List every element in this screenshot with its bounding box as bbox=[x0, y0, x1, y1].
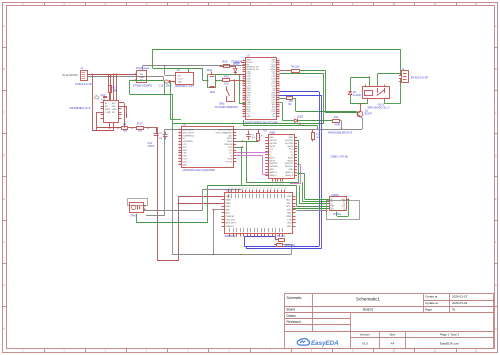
svg-text:33: 33 bbox=[278, 98, 280, 100]
svg-text:31: 31 bbox=[278, 103, 280, 105]
svg-text:D: D bbox=[3, 154, 5, 158]
svg-text:47: 47 bbox=[278, 66, 280, 68]
svg-text:10: 10 bbox=[243, 80, 245, 82]
svg-text:3: 3 bbox=[179, 134, 180, 136]
svg-text:8: 8 bbox=[179, 149, 180, 151]
svg-text:2: 2 bbox=[179, 131, 180, 133]
svg-text:VBAT: VBAT bbox=[225, 199, 231, 202]
svg-text:Version: Version bbox=[360, 332, 370, 336]
svg-text:D: D bbox=[495, 154, 497, 158]
svg-text:LED3: LED3 bbox=[297, 115, 304, 118]
svg-text:39: 39 bbox=[278, 84, 280, 86]
svg-text:SSRXN2: SSRXN2 bbox=[269, 166, 278, 168]
svg-text:VBUS: VBUS bbox=[269, 160, 275, 162]
green bus from U3 bbox=[299, 70, 325, 72]
svg-text:18: 18 bbox=[243, 98, 245, 100]
svg-text:4: 4 bbox=[179, 137, 180, 139]
svg-text:37: 37 bbox=[278, 89, 280, 91]
svg-text:42: 42 bbox=[228, 188, 230, 190]
svg-text:SPK-: SPK- bbox=[287, 209, 292, 211]
connector J2 KF301-5.0-3P bbox=[402, 71, 409, 83]
svg-text:13: 13 bbox=[179, 163, 181, 165]
svg-text:55: 55 bbox=[274, 188, 276, 190]
svg-text:38: 38 bbox=[278, 87, 280, 89]
resistor R18 bbox=[223, 79, 230, 82]
svg-text:RVCLK: RVCLK bbox=[225, 161, 233, 163]
svg-text:20: 20 bbox=[243, 103, 245, 105]
svg-text:34: 34 bbox=[278, 96, 280, 98]
resistor R9 vertical bbox=[312, 133, 315, 140]
svg-text:IN 12-24V DC: IN 12-24V DC bbox=[62, 74, 78, 77]
transistor Q1 BC547 bbox=[357, 111, 363, 117]
svg-text:43: 43 bbox=[278, 75, 280, 77]
svg-text:H: H bbox=[495, 326, 497, 330]
svg-text:VIO: VIO bbox=[229, 150, 233, 152]
svg-text:E: E bbox=[3, 197, 5, 201]
svg-text:VDD: VDD bbox=[228, 147, 233, 149]
svg-text:B: B bbox=[495, 67, 497, 71]
svg-text:GPIO.1/RXT: GPIO.1/RXT bbox=[182, 130, 195, 132]
svg-text:SUSPEND: SUSPEND bbox=[182, 141, 193, 143]
wire 3V3 rail bbox=[188, 68, 190, 72]
green loop to U5 supply bbox=[130, 80, 164, 82]
svg-text:Board: Board bbox=[287, 308, 296, 312]
op-amp U5 CP2102N bbox=[182, 127, 234, 168]
svg-text:15: 15 bbox=[243, 91, 245, 93]
svg-text:26: 26 bbox=[278, 115, 280, 117]
svg-text:APHD1608LSECK/J3: APHD1608LSECK/J3 bbox=[328, 131, 353, 134]
node FB row bbox=[97, 127, 122, 129]
svg-text:SSTXP1: SSTXP1 bbox=[269, 140, 278, 142]
svg-text:SSRXN1: SSRXN1 bbox=[285, 166, 294, 168]
svg-text:1M0: 1M0 bbox=[113, 89, 118, 92]
svg-text:MIC+: MIC+ bbox=[286, 200, 292, 202]
svg-text:GPIO.3/RS485: GPIO.3/RS485 bbox=[218, 130, 233, 132]
svg-text:Update at: Update at bbox=[425, 301, 438, 305]
svg-text:470uF: 470uF bbox=[148, 145, 155, 148]
svg-text:44: 44 bbox=[278, 73, 280, 75]
svg-text:SBU2: SBU2 bbox=[288, 157, 294, 159]
svg-text:C16: C16 bbox=[159, 83, 164, 87]
svg-text:GND: GND bbox=[287, 213, 292, 215]
svg-text:VREGIN: VREGIN bbox=[224, 144, 233, 146]
svg-text:AMS1117-3.3V: AMS1117-3.3V bbox=[175, 84, 194, 88]
svg-text:DTR: DTR bbox=[182, 159, 187, 161]
svg-text:SHELL2: SHELL2 bbox=[269, 175, 278, 177]
svg-text:STATUS: STATUS bbox=[225, 225, 234, 228]
svg-text:USB3.1-AF-90: USB3.1-AF-90 bbox=[331, 155, 349, 159]
svg-text:19: 19 bbox=[243, 101, 245, 103]
svg-text:VBUS: VBUS bbox=[269, 146, 275, 148]
svg-text:Create at: Create at bbox=[425, 295, 438, 299]
svg-text:50: 50 bbox=[256, 188, 258, 190]
svg-text:H: H bbox=[3, 326, 5, 330]
svg-text:40: 40 bbox=[278, 82, 280, 84]
resistor R16 bbox=[274, 244, 277, 246]
svg-text:45: 45 bbox=[238, 188, 240, 190]
svg-text:SSRXP1: SSRXP1 bbox=[285, 163, 294, 165]
svg-text:22: 22 bbox=[243, 108, 245, 110]
svg-text:E: E bbox=[495, 197, 497, 201]
svg-text:USB2: USB2 bbox=[269, 132, 276, 135]
svg-text:VOUT: VOUT bbox=[178, 79, 184, 81]
wire V+ from J1 bbox=[87, 74, 136, 76]
svg-text:17: 17 bbox=[243, 96, 245, 98]
svg-text:45: 45 bbox=[278, 70, 280, 72]
svg-text:Schematic1: Schematic1 bbox=[356, 297, 380, 302]
svg-text:MP1584EN-LF-Z: MP1584EN-LF-Z bbox=[69, 106, 90, 110]
svg-text:BC547: BC547 bbox=[365, 112, 373, 115]
wire caps to R18 bbox=[216, 80, 223, 82]
title block bbox=[285, 294, 494, 349]
svg-text:PWRKEY: PWRKEY bbox=[225, 216, 235, 218]
svg-text:49: 49 bbox=[253, 188, 255, 190]
svg-text:1: 1 bbox=[179, 128, 180, 130]
svg-text:B: B bbox=[3, 67, 5, 71]
svg-text:GND: GND bbox=[228, 159, 233, 161]
svg-text:42: 42 bbox=[278, 77, 280, 79]
svg-text:51: 51 bbox=[260, 188, 262, 190]
capacitor C5 bbox=[246, 134, 251, 136]
svg-text:57: 57 bbox=[281, 188, 283, 190]
svg-text:56: 56 bbox=[278, 188, 280, 190]
svg-text:R19: R19 bbox=[223, 61, 228, 64]
wire fuse to EN net (gray) bbox=[142, 66, 144, 71]
svg-text:GND: GND bbox=[288, 169, 293, 171]
svg-text:11: 11 bbox=[179, 157, 181, 159]
svg-text:TF-01A: TF-01A bbox=[333, 213, 341, 216]
svg-text:Page 1 Total 1: Page 1 Total 1 bbox=[440, 332, 459, 336]
svg-text:ADC: ADC bbox=[225, 212, 230, 215]
svg-text:Board1: Board1 bbox=[363, 308, 374, 312]
svg-text:D-: D- bbox=[230, 156, 233, 158]
connector USB2 bbox=[269, 135, 295, 179]
svg-text:2026-01-29: 2026-01-29 bbox=[452, 301, 468, 305]
wire card loop bbox=[346, 199, 348, 201]
svg-text:12: 12 bbox=[179, 160, 181, 162]
svg-text:16: 16 bbox=[243, 94, 245, 96]
svg-text:7: 7 bbox=[179, 146, 180, 148]
svg-text:GND: GND bbox=[288, 137, 293, 139]
svg-text:1M0: 1M0 bbox=[122, 130, 127, 133]
wire speaker bbox=[146, 215, 164, 217]
svg-text:21: 21 bbox=[243, 105, 245, 107]
svg-text:GND: GND bbox=[225, 209, 230, 211]
svg-text:SHELL4: SHELL4 bbox=[285, 175, 294, 177]
svg-text:DSR: DSR bbox=[182, 156, 187, 158]
svg-text:SW: SW bbox=[112, 106, 115, 108]
op-amp U1 MP1584EN-LF-Z bbox=[104, 101, 119, 123]
svg-text:R6 1K0: R6 1K0 bbox=[291, 65, 300, 68]
svg-text:DCD: DCD bbox=[182, 161, 187, 163]
svg-text:R16 2K2: R16 2K2 bbox=[286, 244, 296, 247]
svg-text:10uF: 10uF bbox=[207, 69, 213, 72]
svg-text:SHELL1: SHELL1 bbox=[269, 172, 278, 174]
svg-text:1K0: 1K0 bbox=[138, 130, 143, 133]
svg-text:GPIO.2/WAKEUP: GPIO.2/WAKEUP bbox=[215, 131, 233, 134]
svg-text:CTS: CTS bbox=[182, 144, 187, 146]
magenta usb data wires bbox=[236, 152, 268, 154]
svg-text:VBUS: VBUS bbox=[287, 160, 293, 162]
svg-text:MIC-: MIC- bbox=[287, 203, 292, 205]
capacitor C16 bbox=[164, 80, 168, 83]
svg-text:C: C bbox=[495, 110, 497, 114]
EasyEDA logo bbox=[297, 338, 339, 346]
svg-text:KT600-2000R3: KT600-2000R3 bbox=[133, 83, 152, 87]
svg-text:FREQ: FREQ bbox=[105, 109, 111, 111]
svg-text:14: 14 bbox=[243, 89, 245, 91]
svg-text:EasyEDA.com: EasyEDA.com bbox=[440, 341, 460, 345]
svg-text:CLK: CLK bbox=[272, 116, 277, 118]
wire relay coil/contacts bbox=[351, 103, 368, 105]
capacitor C1 bbox=[208, 75, 216, 88]
svg-text:GPIO.0/TXT: GPIO.0/TXT bbox=[182, 132, 194, 134]
svg-text:46: 46 bbox=[242, 188, 244, 190]
svg-text:GND: GND bbox=[269, 169, 274, 171]
wire blue bus bbox=[280, 91, 320, 93]
svg-text:Reviewed: Reviewed bbox=[287, 320, 301, 324]
svg-text:G: G bbox=[3, 283, 5, 287]
svg-text:SIM800C: SIM800C bbox=[224, 234, 236, 238]
svg-text:32: 32 bbox=[278, 101, 280, 103]
svg-text:TS-1090-AR02016: TS-1090-AR02016 bbox=[214, 105, 238, 109]
svg-text:SRD-05VDC-SL-C: SRD-05VDC-SL-C bbox=[367, 105, 389, 109]
svg-text:GND: GND bbox=[287, 223, 292, 225]
resistor R3 (vertical) bbox=[109, 86, 112, 93]
relay RLY1 bbox=[363, 87, 390, 99]
svg-text:52: 52 bbox=[263, 188, 265, 190]
svg-text:GND: GND bbox=[182, 164, 187, 166]
op-amp U10 SIM800C bbox=[225, 193, 293, 234]
green wires around USB bbox=[246, 141, 248, 182]
svg-text:24: 24 bbox=[243, 112, 245, 114]
op-amp U3 ESP32-WROOM-32D bbox=[246, 58, 277, 120]
svg-text:KF301-5.0-2P: KF301-5.0-2P bbox=[75, 82, 91, 86]
svg-text:11: 11 bbox=[243, 82, 245, 84]
svg-text:A: A bbox=[3, 24, 5, 28]
wire card feeds bbox=[297, 173, 305, 175]
svg-text:41: 41 bbox=[278, 80, 280, 82]
svg-text:VBAT: VBAT bbox=[225, 202, 231, 205]
svg-text:46: 46 bbox=[278, 68, 280, 70]
svg-text:GND: GND bbox=[287, 196, 292, 198]
svg-text:SPK+: SPK+ bbox=[286, 206, 292, 208]
svg-text:RSTb: RSTb bbox=[227, 138, 233, 140]
capacitor C12 bbox=[163, 134, 168, 136]
svg-text:28: 28 bbox=[278, 110, 280, 112]
svg-text:D-: D- bbox=[291, 155, 294, 157]
svg-text:58: 58 bbox=[285, 188, 287, 190]
svg-text:NC: NC bbox=[182, 138, 186, 140]
svg-text:SUSPENDb: SUSPENDb bbox=[182, 135, 194, 137]
wire branches down to regulator U1 bbox=[108, 74, 110, 85]
svg-text:470R: 470R bbox=[334, 123, 340, 126]
wire VBAT down to modem bbox=[157, 128, 159, 261]
svg-text:35: 35 bbox=[278, 94, 280, 96]
svg-text:GND: GND bbox=[287, 226, 292, 228]
svg-text:Drawn: Drawn bbox=[287, 314, 296, 318]
svg-text:13: 13 bbox=[243, 87, 245, 89]
svg-text:R18: R18 bbox=[224, 76, 229, 79]
svg-text:30: 30 bbox=[278, 105, 280, 107]
capacitor C13 bbox=[154, 133, 159, 135]
svg-text:10uF: 10uF bbox=[210, 91, 216, 94]
svg-text:R17: R17 bbox=[137, 122, 143, 126]
svg-text:49: 49 bbox=[278, 61, 280, 63]
wires around U1 bbox=[92, 130, 114, 132]
svg-text:5: 5 bbox=[179, 140, 180, 142]
svg-text:2026-01-07: 2026-01-07 bbox=[452, 295, 468, 299]
speaker SPK1 bbox=[128, 199, 148, 206]
svg-text:48: 48 bbox=[249, 188, 251, 190]
svg-text:P1: P1 bbox=[452, 308, 456, 312]
svg-text:V1.0: V1.0 bbox=[362, 341, 369, 345]
svg-text:Size: Size bbox=[389, 332, 395, 336]
svg-text:GND: GND bbox=[112, 109, 117, 111]
connector CARD1 bbox=[327, 201, 360, 220]
polyfuse F1 KT600-2000R3 bbox=[137, 71, 147, 83]
wire V- from J1 (gray) bbox=[87, 76, 164, 78]
svg-text:SSTXP2: SSTXP2 bbox=[285, 140, 294, 142]
svg-text:G: G bbox=[495, 283, 497, 287]
svg-text:10: 10 bbox=[179, 155, 181, 157]
svg-text:50: 50 bbox=[278, 59, 280, 61]
svg-text:DTR: DTR bbox=[287, 219, 292, 221]
svg-text:47: 47 bbox=[246, 188, 248, 190]
svg-text:CARD1: CARD1 bbox=[331, 194, 340, 197]
svg-text:54: 54 bbox=[270, 188, 272, 190]
svg-text:RTS: RTS bbox=[182, 147, 187, 149]
resistor R2 bbox=[280, 98, 287, 100]
svg-text:12: 12 bbox=[243, 84, 245, 86]
svg-text:ESP32WROOM-32D-R4: ESP32WROOM-32D-R4 bbox=[245, 121, 278, 125]
wire green to relay bbox=[400, 49, 402, 75]
svg-text:SSTXN2: SSTXN2 bbox=[285, 143, 294, 145]
svg-text:25: 25 bbox=[243, 115, 245, 117]
svg-text:TXD: TXD bbox=[182, 153, 187, 155]
svg-text:27: 27 bbox=[278, 112, 280, 114]
svg-text:D-: D- bbox=[269, 155, 272, 157]
svg-text:R14: R14 bbox=[334, 116, 339, 119]
capacitor C2 bbox=[210, 86, 215, 88]
svg-text:Schematic: Schematic bbox=[287, 296, 302, 300]
svg-text:CP2102N-A02-GQFN24R: CP2102N-A02-GQFN24R bbox=[183, 168, 215, 172]
svg-text:GND: GND bbox=[269, 137, 274, 139]
svg-text:SSTXN1: SSTXN1 bbox=[269, 143, 278, 145]
wire red branch down bbox=[92, 74, 94, 131]
svg-text:1K0: 1K0 bbox=[224, 83, 229, 86]
svg-text:LL4148: LL4148 bbox=[353, 94, 362, 97]
svg-text:KF301-5.0-3P: KF301-5.0-3P bbox=[411, 76, 429, 80]
svg-text:SSRXP2: SSRXP2 bbox=[269, 163, 278, 165]
svg-text:48: 48 bbox=[278, 63, 280, 65]
svg-text:Page: Page bbox=[425, 308, 432, 312]
resistor R5 vertical bbox=[257, 134, 260, 141]
svg-text:GND: GND bbox=[225, 206, 230, 208]
svg-text:36: 36 bbox=[278, 91, 280, 93]
svg-text:23: 23 bbox=[243, 110, 245, 112]
svg-text:A4: A4 bbox=[391, 341, 395, 345]
svg-text:EasyEDA: EasyEDA bbox=[311, 340, 339, 347]
svg-text:VDD33: VDD33 bbox=[233, 62, 241, 64]
svg-text:COMP: COMP bbox=[105, 112, 111, 114]
switch SW1 bbox=[234, 80, 236, 102]
svg-text:A: A bbox=[495, 24, 497, 28]
svg-text:SBU1: SBU1 bbox=[269, 157, 275, 159]
svg-text:VBUS: VBUS bbox=[227, 141, 233, 143]
svg-text:43: 43 bbox=[231, 188, 233, 190]
svg-text:29: 29 bbox=[278, 108, 280, 110]
wire to Q1 base bbox=[296, 111, 357, 113]
regulator U2 AMS1117-3.3V bbox=[176, 73, 194, 85]
svg-text:C: C bbox=[3, 110, 5, 114]
svg-text:SHELL3: SHELL3 bbox=[285, 172, 294, 174]
svg-text:9: 9 bbox=[179, 152, 180, 154]
wire caps to ESP IO bbox=[216, 74, 239, 76]
svg-text:GND: GND bbox=[246, 116, 251, 118]
svg-text:GND: GND bbox=[178, 82, 183, 84]
svg-text:44: 44 bbox=[235, 188, 237, 190]
diode D2 LL4148 bbox=[348, 91, 352, 93]
resistor R17 bbox=[137, 127, 144, 130]
resistor R4 bbox=[122, 127, 128, 130]
gray gnd bus bbox=[362, 118, 364, 129]
svg-text:R7 1K0: R7 1K0 bbox=[277, 235, 286, 238]
svg-text:VBUS: VBUS bbox=[287, 146, 293, 148]
svg-text:RXD: RXD bbox=[182, 150, 187, 152]
svg-text:VDD_EXT: VDD_EXT bbox=[225, 219, 236, 221]
svg-text:NETLIGHT: NETLIGHT bbox=[225, 223, 236, 225]
svg-text:53: 53 bbox=[267, 188, 269, 190]
svg-text:6: 6 bbox=[179, 143, 180, 145]
svg-text:RING: RING bbox=[286, 216, 292, 218]
